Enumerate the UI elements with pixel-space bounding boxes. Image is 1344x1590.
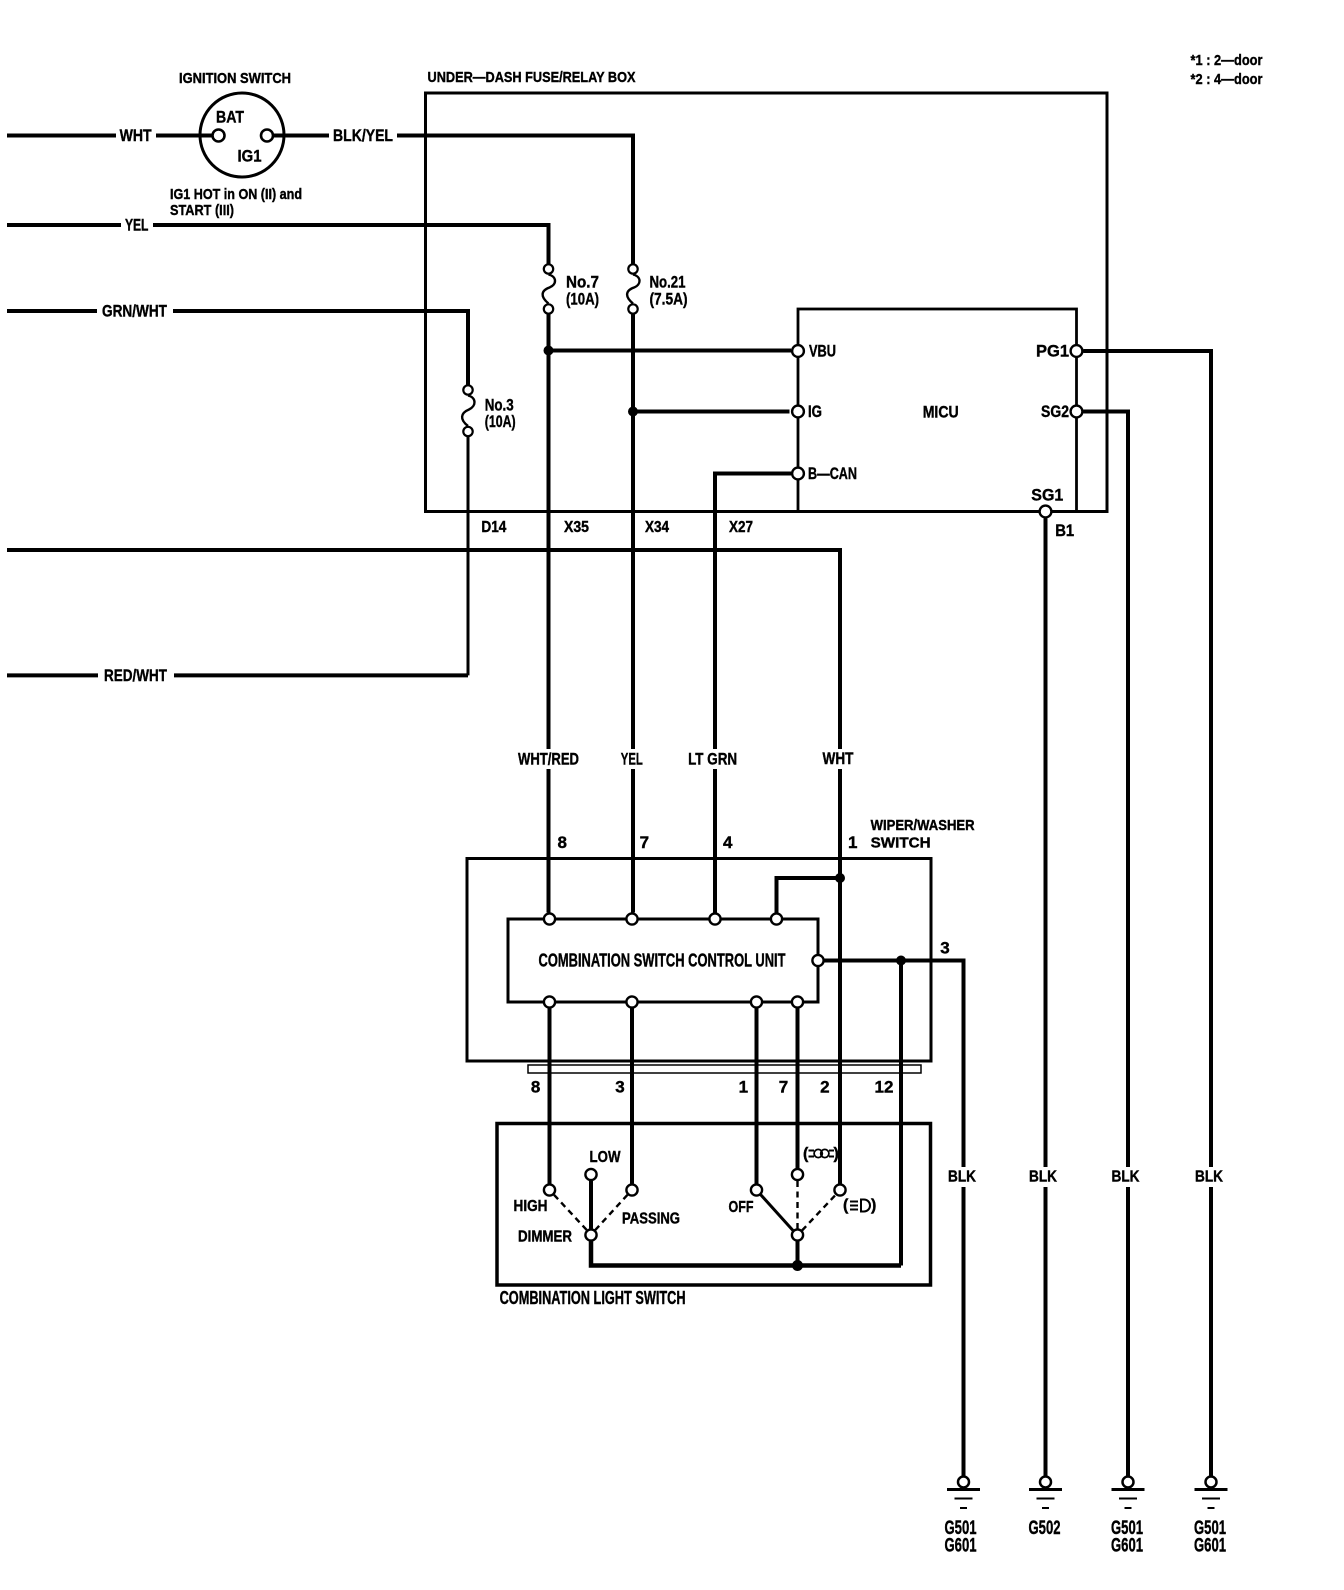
wire BLK/YEL from ignition switch into fuse box xyxy=(273,125,633,264)
pin PG1 xyxy=(1036,342,1082,361)
junction IG tap xyxy=(628,407,638,417)
junction pin1 branch xyxy=(835,873,845,883)
dashed DIMMER to HIGH xyxy=(554,1195,587,1231)
wire pin 12 to bus xyxy=(899,961,903,1266)
wire CSCU right pin to pin 3 xyxy=(825,961,964,1477)
symbol parking lights xyxy=(803,1146,839,1163)
svg-text:MICU: MICU xyxy=(923,403,959,422)
pin number 2 (strip) xyxy=(820,1078,829,1097)
ground G502 (B1) xyxy=(1029,1477,1063,1540)
wire CSCU pin to OFF contact xyxy=(755,1009,759,1184)
contact light switch common xyxy=(792,1229,803,1240)
pin SG1 xyxy=(1031,486,1063,518)
pin SG2 xyxy=(1041,402,1082,421)
pin IG xyxy=(792,402,822,421)
svg-text:UNDER—DASH FUSE/RELAY BOX: UNDER—DASH FUSE/RELAY BOX xyxy=(428,69,636,86)
svg-text:SG1: SG1 xyxy=(1031,486,1063,505)
svg-text:B1: B1 xyxy=(1055,521,1074,540)
CSCU bottom pin c xyxy=(751,996,762,1007)
svg-text:8: 8 xyxy=(557,833,566,852)
wire label WHT xyxy=(820,749,857,769)
connector label X27 xyxy=(729,519,753,536)
fuse No.21 (7.5A) xyxy=(627,264,687,313)
pin B-CAN xyxy=(792,464,857,483)
wire label BLK (pin3) xyxy=(946,1167,981,1187)
pin VBU xyxy=(792,342,836,361)
svg-text:VBU: VBU xyxy=(809,342,836,361)
svg-text:D14: D14 xyxy=(481,519,506,536)
svg-text:2: 2 xyxy=(820,1078,829,1097)
ground G501/G601 (PG1) xyxy=(1194,1477,1228,1557)
svg-text:BLK: BLK xyxy=(948,1169,976,1186)
svg-text:SWITCH: SWITCH xyxy=(871,835,931,852)
wire WHT (pin 1 feed) xyxy=(7,550,840,1184)
svg-text:BLK: BLK xyxy=(1029,1169,1057,1186)
svg-text:IG1 HOT in ON (II) and: IG1 HOT in ON (II) and xyxy=(170,186,302,203)
wire DIMMER to ground bus xyxy=(591,1242,901,1266)
svg-text:G601: G601 xyxy=(945,1536,977,1557)
CSCU bottom pin b xyxy=(626,996,637,1007)
CSCU top pin b xyxy=(626,913,637,924)
svg-text:COMBINATION SWITCH CONTROL UNI: COMBINATION SWITCH CONTROL UNIT xyxy=(539,951,786,971)
svg-text:X35: X35 xyxy=(564,519,589,536)
CSCU top pin a xyxy=(544,913,555,924)
note *1 : 2-door xyxy=(1191,52,1263,88)
svg-text:BLK/YEL: BLK/YEL xyxy=(333,126,393,145)
svg-text:(10A): (10A) xyxy=(566,290,599,309)
svg-text:(7.5A): (7.5A) xyxy=(650,290,688,309)
svg-text:G601: G601 xyxy=(1194,1536,1226,1557)
svg-text:BLK: BLK xyxy=(1112,1169,1140,1186)
wire label BLK (SG2) xyxy=(1110,1167,1145,1187)
svg-text:COMBINATION LIGHT SWITCH: COMBINATION LIGHT SWITCH xyxy=(500,1288,686,1308)
under-dash fuse/relay box label xyxy=(428,69,636,86)
contact small lights xyxy=(792,1169,803,1180)
wire LOW to DIMMER xyxy=(589,1181,593,1229)
svg-text:PASSING: PASSING xyxy=(622,1211,680,1228)
ignition switch S1 xyxy=(200,93,284,177)
svg-text:7: 7 xyxy=(640,833,649,852)
wire CSCU pin to HIGH contact xyxy=(548,1009,552,1184)
junction pin 12 tap xyxy=(896,956,906,966)
wire PG1 to ground xyxy=(1084,351,1212,1476)
contact LOW xyxy=(585,1149,621,1180)
pin number 8 (strip) xyxy=(531,1078,540,1097)
svg-text:12: 12 xyxy=(875,1078,894,1097)
wire RED/WHT xyxy=(7,665,468,685)
terminal label BAT xyxy=(216,108,245,127)
CSCU right pin xyxy=(812,955,823,966)
wire B-CAN / X27 column xyxy=(715,474,791,913)
connector label D14 xyxy=(481,519,506,536)
contact OFF xyxy=(729,1184,763,1216)
fuse No.7 (10A) xyxy=(543,264,599,313)
ground G501/G601 (SG2) xyxy=(1111,1477,1145,1557)
svg-text:*2 : 4—door: *2 : 4—door xyxy=(1191,71,1263,88)
MICU box xyxy=(798,309,1077,512)
svg-text:WIPER/WASHER: WIPER/WASHER xyxy=(871,817,975,834)
svg-text:GRN/WHT: GRN/WHT xyxy=(102,302,167,321)
svg-text:): ) xyxy=(834,1146,839,1163)
svg-text:IG1: IG1 xyxy=(238,147,262,166)
wire X34 column (No.21 fuse down to CSCU pin 7) xyxy=(631,315,635,913)
wire WHT (battery feed, left) xyxy=(7,125,213,145)
connector label X34 xyxy=(645,519,669,536)
wire B1 to ground xyxy=(1044,519,1048,1477)
combination light switch box xyxy=(497,1124,931,1286)
wire CSCU pin to PASSING contact xyxy=(630,1009,634,1184)
CSCU top pin d xyxy=(771,913,782,924)
svg-text:PG1: PG1 xyxy=(1036,342,1069,361)
wire D14 branch (No.3 fuse to RED/WHT) xyxy=(467,437,470,675)
ignition switch label xyxy=(179,70,291,87)
svg-text:YEL: YEL xyxy=(125,216,149,235)
CSCU bottom pin a xyxy=(544,996,555,1007)
wiper/washer switch box xyxy=(467,859,931,1062)
svg-text:IGNITION SWITCH: IGNITION SWITCH xyxy=(179,70,291,87)
CSCU bottom pin d xyxy=(792,996,803,1007)
svg-text:BLK: BLK xyxy=(1195,1169,1223,1186)
svg-text:(: ( xyxy=(803,1146,809,1163)
svg-text:DIMMER: DIMMER xyxy=(518,1229,572,1246)
note IG1 HOT xyxy=(170,186,302,219)
pin number 7 (strip) xyxy=(779,1078,788,1097)
svg-text:RED/WHT: RED/WHT xyxy=(104,666,167,685)
pin number 8 (WW top) xyxy=(557,833,566,852)
contact PASSING xyxy=(622,1184,680,1227)
svg-text:X27: X27 xyxy=(729,519,753,536)
svg-text:HIGH: HIGH xyxy=(514,1198,548,1215)
wire X35 column (No.7 fuse down to CSCU pin 8) xyxy=(547,315,551,913)
svg-text:BAT: BAT xyxy=(216,108,245,127)
contact headlights xyxy=(834,1184,845,1195)
svg-text:(: ( xyxy=(843,1197,849,1214)
svg-text:7: 7 xyxy=(779,1078,788,1097)
svg-text:1: 1 xyxy=(848,833,857,852)
svg-text:YEL: YEL xyxy=(621,750,643,769)
fuse No.3 (10A) xyxy=(462,385,516,436)
combination switch control unit U1 xyxy=(508,919,818,1002)
svg-text:WHT: WHT xyxy=(120,126,152,145)
wire label BLK (B1) xyxy=(1027,1167,1062,1187)
contact DIMMER common xyxy=(518,1229,597,1246)
wire label LT GRN xyxy=(685,749,741,769)
connector strip xyxy=(528,1065,921,1073)
junction bus xyxy=(792,1260,803,1271)
svg-text:SG2: SG2 xyxy=(1041,402,1069,421)
terminal label IG1 xyxy=(238,147,262,166)
junction VBU tap xyxy=(544,346,554,356)
svg-text:START (III): START (III) xyxy=(170,202,234,219)
CSCU top pin c xyxy=(709,913,720,924)
wire YEL xyxy=(7,215,549,264)
wire label BLK (PG1) xyxy=(1193,1167,1228,1187)
pin number 3 (WW right) xyxy=(940,939,949,958)
wire VBU feed xyxy=(549,349,792,353)
wire label WHT/RED xyxy=(513,749,584,769)
pin number 3 (strip) xyxy=(615,1078,624,1097)
svg-text:OFF: OFF xyxy=(729,1199,754,1216)
connector label B1 xyxy=(1055,521,1074,540)
pin number 1 (WW top) xyxy=(848,833,857,852)
wire label YEL xyxy=(618,749,646,769)
svg-text:B—CAN: B—CAN xyxy=(808,464,857,483)
svg-text:G502: G502 xyxy=(1029,1518,1061,1539)
svg-text:3: 3 xyxy=(615,1078,624,1097)
pin number 4 (WW top) xyxy=(723,833,733,852)
svg-text:LOW: LOW xyxy=(590,1149,622,1166)
wire CSCU pin to small light contact xyxy=(796,1009,800,1169)
pin number 1 (strip) xyxy=(739,1078,748,1097)
wire GRN/WHT xyxy=(7,301,468,385)
ground G501/G601 (pin3) xyxy=(945,1477,981,1557)
svg-text:): ) xyxy=(871,1197,876,1214)
connector label X35 xyxy=(564,519,589,536)
wire SG2 to ground xyxy=(1084,412,1129,1477)
dashed common to headlights xyxy=(802,1195,836,1231)
svg-text:*1 : 2—door: *1 : 2—door xyxy=(1191,52,1263,69)
wire OFF to common (switch blade) xyxy=(761,1195,793,1231)
dashed common to small lights xyxy=(796,1181,798,1229)
dashed DIMMER to PASSING xyxy=(595,1195,628,1231)
pin number 7 (WW top) xyxy=(640,833,649,852)
svg-text:WHT: WHT xyxy=(823,749,854,768)
wire branch to CSCU top pin 4 xyxy=(777,878,841,913)
combination light switch label xyxy=(500,1288,686,1308)
svg-text:1: 1 xyxy=(739,1078,748,1097)
svg-text:WHT/RED: WHT/RED xyxy=(518,750,579,769)
wire IG feed xyxy=(633,410,790,414)
svg-text:(10A): (10A) xyxy=(485,412,516,431)
svg-text:IG: IG xyxy=(808,402,822,421)
svg-text:3: 3 xyxy=(940,939,949,958)
svg-text:8: 8 xyxy=(531,1078,540,1097)
wiper/washer switch label xyxy=(871,817,975,852)
svg-text:4: 4 xyxy=(723,833,733,852)
svg-text:X34: X34 xyxy=(645,519,669,536)
svg-text:LT GRN: LT GRN xyxy=(688,750,737,769)
under-dash fuse/relay box xyxy=(426,93,1108,512)
svg-text:G601: G601 xyxy=(1111,1536,1143,1557)
contact HIGH xyxy=(514,1184,556,1215)
wire common stub to bus xyxy=(796,1242,800,1266)
symbol headlights xyxy=(843,1197,876,1214)
pin number 12 (strip) xyxy=(875,1078,894,1097)
